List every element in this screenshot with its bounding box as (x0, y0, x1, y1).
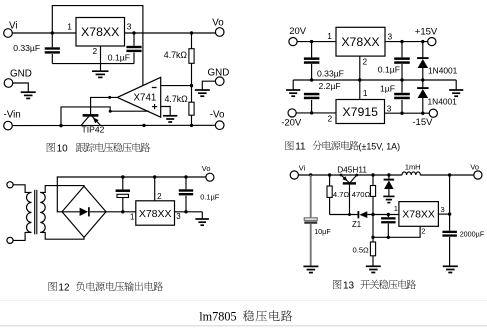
junction rail/pin2 (358, 78, 361, 81)
junction pin3/C5 (400, 40, 403, 43)
terminal Vo fig12 (206, 173, 214, 181)
caption fig13 (333, 280, 416, 292)
svg-text:0.1µF: 0.1µF (200, 192, 220, 201)
wire U1 pin3 out (125, 32, 216, 34)
wire noninverting step from -Vin (61, 107, 149, 126)
resistor R3 4.7ohm (327, 186, 332, 197)
capacitor C3 0.33uF (304, 59, 320, 63)
svg-text:D45H11: D45H11 (337, 164, 367, 174)
diode D2 1N4001 (417, 88, 429, 98)
wire op-amp minus input (161, 85, 192, 87)
svg-text:2: 2 (363, 57, 368, 67)
svg-text:1µF: 1µF (380, 84, 395, 94)
junction +15V/D1 (421, 40, 424, 43)
junction on op-amp output (108, 96, 111, 99)
wire U5 pin2 up to rail (154, 177, 156, 201)
svg-text:Vi: Vi (299, 163, 306, 172)
svg-text:3: 3 (388, 32, 393, 42)
wire U6 pin3 out (438, 213, 449, 215)
inductor L1 1mH (402, 172, 420, 175)
wire C1 top (51, 33, 53, 47)
junction C10/pin1 row (387, 213, 390, 216)
wire U4 pin1 up (359, 80, 361, 100)
svg-text:1: 1 (363, 88, 368, 98)
junction Q2 left leg (340, 174, 343, 177)
capacitor C5 0.1uF (394, 59, 410, 63)
regulator U3 X78XX (336, 27, 385, 56)
ground at GND right terminal (195, 90, 210, 96)
wire C8 top lead (185, 177, 187, 189)
junction 20V/C3 (310, 40, 313, 43)
svg-text:1: 1 (130, 212, 135, 221)
wire bridge right to U5 pin1 (106, 211, 136, 213)
wire U4 pin3 out (385, 112, 430, 114)
svg-text:X78XX: X78XX (402, 209, 435, 221)
ground right fig11 (449, 90, 463, 96)
svg-text:Vo: Vo (212, 18, 224, 29)
wire C6 top (401, 80, 403, 93)
wire U5 pin3 out (175, 211, 203, 213)
junction Q2 right leg (355, 174, 358, 177)
svg-text:lm7805: lm7805 (199, 309, 236, 323)
svg-text:3: 3 (176, 212, 181, 221)
svg-text:1: 1 (394, 204, 398, 213)
svg-text:Vo: Vo (202, 164, 211, 173)
svg-text:GND: GND (10, 68, 32, 79)
junction Vi/C1/feedback (51, 31, 54, 34)
svg-text:X7915: X7915 (342, 105, 378, 119)
wire D1 top lead (422, 42, 424, 58)
junction C7/pin1 line (121, 210, 124, 213)
wire C3 top (311, 42, 313, 58)
terminal Vi fig13 (290, 171, 298, 179)
regulator U1 X78XX (76, 18, 125, 47)
junction C6/-15V line (400, 112, 403, 115)
capacitor C10 470uF (381, 218, 396, 222)
capacitor C1 0.33uF (45, 49, 60, 53)
junction -Vin mid (142, 124, 145, 127)
wire AC top to primary (13, 185, 31, 193)
junction bottom rail left (371, 236, 374, 239)
zener Z1 (357, 211, 359, 218)
svg-text:10: 10 (57, 143, 69, 154)
op-amp U2 X741 (117, 77, 160, 117)
wire D1 bottom lead (422, 68, 424, 80)
terminal Vo fig10 (215, 28, 224, 37)
ground under C9 (303, 266, 318, 272)
wire 0.5ohm bottom lead (372, 256, 374, 266)
svg-text:-Vin: -Vin (4, 110, 21, 121)
junction rail/C5-C6 (400, 78, 403, 81)
separator line above bottom caption (0, 300, 487, 302)
wire -Vin line (12, 124, 215, 126)
terminal GND left (4, 79, 13, 88)
terminal -Vin (4, 121, 13, 130)
wire -20V to U4 pin2 (296, 112, 336, 114)
svg-text:Z1: Z1 (352, 220, 361, 229)
wire U6 pin2 down to rail (373, 226, 420, 237)
junction rail/C3-C4 (310, 78, 313, 81)
wire GND right to ground (202, 81, 215, 89)
wire R4 bottom lead (372, 196, 374, 214)
wire D2 top lead (422, 80, 424, 88)
resistor R1 4.7k (189, 49, 194, 64)
wire D3 bottom lead (388, 189, 390, 196)
wire C11 top lead (449, 214, 451, 231)
diode D1 1N4001 (417, 58, 429, 68)
svg-text:TIP42: TIP42 (82, 125, 105, 135)
wire U1 pin2 to ground (100, 46, 102, 71)
junction -Vin/step (59, 124, 62, 127)
svg-text:1N4001: 1N4001 (428, 96, 458, 106)
diode D3 catch (384, 180, 395, 189)
junction pin3/riser (448, 212, 451, 215)
capacitor C4 2.2uF (304, 94, 320, 98)
svg-text:3: 3 (441, 205, 445, 214)
wire R2 top lead (191, 86, 193, 103)
resistor R4 470ohm (370, 186, 375, 197)
wire U3 pin2 down (359, 56, 361, 80)
wire secondary bottom to bridge bottom (40, 232, 84, 239)
svg-text:2: 2 (421, 226, 425, 235)
svg-text:1: 1 (327, 31, 332, 41)
capacitor C7 filter electrolytic (116, 189, 130, 192)
svg-text:X78XX: X78XX (341, 35, 379, 49)
wire C8 bottom lead (185, 196, 187, 212)
wire C3 bottom to mid rail (311, 64, 313, 80)
capacitor C9 10uF electrolytic gray (304, 175, 317, 266)
wire R1 bottom to inverting node (191, 63, 193, 85)
svg-text:-Vo: -Vo (210, 109, 225, 120)
svg-text:0.33µF: 0.33µF (13, 43, 40, 53)
wire C6 bottom (401, 100, 403, 113)
svg-text:2: 2 (93, 46, 98, 56)
wire pin3 riser (449, 175, 451, 214)
wire R4 top lead (372, 175, 374, 186)
terminal AC bottom (7, 237, 13, 243)
capacitor C8 0.1uF (179, 191, 193, 195)
svg-text:-20V: -20V (281, 117, 302, 128)
wire Z1 row down (372, 215, 374, 238)
junction rail/D1-D2 (421, 78, 424, 81)
terminal -Vo (215, 121, 224, 130)
svg-text:3: 3 (127, 22, 132, 32)
terminal -20V (288, 109, 296, 117)
svg-text:X741: X741 (134, 93, 157, 104)
wire op-amp output to Q1 base (91, 97, 118, 114)
wire R3 top lead (329, 175, 331, 186)
svg-text:0.1µF: 0.1µF (108, 52, 130, 62)
junction step corner (109, 110, 112, 113)
svg-text:X78XX: X78XX (81, 25, 119, 39)
wire 0.5ohm top lead (372, 237, 374, 242)
transformer T1 secondary winding (40, 192, 45, 232)
ground under C11 (443, 266, 458, 272)
bottom caption lm7805 (199, 309, 292, 323)
resistor R2 4.7k (189, 102, 194, 115)
terminal -15V (429, 109, 437, 117)
caption fig11 (285, 141, 400, 153)
wire base row left (330, 214, 358, 216)
svg-text:+15V: +15V (415, 27, 438, 38)
caption fig10 (47, 143, 150, 155)
terminal Vo fig13 (474, 171, 482, 179)
wire Z1 to pin1 (367, 214, 399, 216)
capacitor C2 0.1uF (126, 47, 141, 51)
terminal +15V (428, 38, 436, 46)
wire R3 bottom lead (329, 197, 331, 214)
transistor Q2 D45H11 (341, 175, 357, 215)
wire R2 bottom to -Vo line (191, 115, 193, 125)
ground under D3 (383, 196, 394, 202)
svg-text:1: 1 (67, 22, 72, 32)
ground at op-amp plus (163, 116, 177, 122)
wire C1 bottom to ground rail (51, 54, 53, 64)
wire 20V to U3 pin1 (297, 41, 336, 43)
junction rail/C8 (184, 175, 187, 178)
junction Q2 collector/R4 (371, 173, 374, 176)
svg-text:11: 11 (295, 141, 306, 152)
junction base/row (348, 213, 351, 216)
wire C4 bottom (311, 100, 313, 113)
wire D2 bottom lead (422, 98, 424, 113)
junction top/pin3 riser (448, 173, 451, 176)
resistor R5 0.5ohm (370, 242, 375, 256)
svg-text:2000µF: 2000µF (460, 229, 485, 238)
transistor Q1 TIP42 (81, 115, 101, 125)
svg-text:Vo: Vo (470, 163, 479, 172)
svg-text:12: 12 (58, 282, 70, 293)
svg-text:(±15V, 1A): (±15V, 1A) (359, 141, 401, 151)
wire secondary top to bridge top (40, 186, 84, 193)
junction R4/Z1 row (371, 213, 374, 216)
wire C10 bottom lead (387, 224, 389, 238)
caption fig12 (49, 282, 163, 294)
ground left fig11 (286, 90, 300, 96)
wire feedback top rail (52, 6, 143, 86)
junction C4/-20V line (310, 111, 313, 114)
svg-text:2: 2 (157, 192, 162, 201)
wire Vi to U1 pin1 (12, 32, 76, 34)
terminal AC top (7, 182, 13, 188)
junction catch diode top (387, 173, 390, 176)
junction rail/C7 (121, 175, 124, 178)
capacitor C6 1uF (394, 94, 410, 98)
svg-text:470Ω: 470Ω (352, 190, 371, 199)
transformer T1 primary winding (27, 192, 32, 232)
svg-text:0.1µF: 0.1µF (378, 65, 400, 75)
svg-text:1N4001: 1N4001 (428, 65, 458, 75)
transformer T1 core (35, 190, 37, 235)
wire U3 pin3 out (385, 41, 428, 43)
junction C10/bottom rail (387, 236, 390, 239)
junction R1/R2/op-amp minus (190, 84, 193, 87)
svg-text:0.33µF: 0.33µF (317, 68, 344, 78)
svg-text:2: 2 (328, 114, 333, 124)
separator line bottom (0, 325, 487, 327)
wire AC bottom to primary (13, 232, 31, 240)
svg-text:20V: 20V (289, 26, 307, 37)
junction Vi/R3/Q2 emitter (328, 173, 331, 176)
bridge rectifier BR1 (62, 186, 106, 237)
regulator U4 X7915 (336, 100, 385, 124)
wire D3 top lead (388, 175, 390, 180)
wire top line after inductor (420, 174, 474, 176)
wire R1 top lead (191, 33, 193, 49)
junction -Vin/R2 (190, 124, 193, 127)
ground at GND left terminal (21, 92, 36, 98)
capacitor C11 2000uF (442, 232, 457, 236)
wire rail left drop (292, 80, 294, 90)
svg-text:1mH: 1mH (405, 162, 421, 171)
wire pin3 to ground (201, 212, 203, 219)
wire C7 bottom lead (122, 198, 124, 212)
junction Vo/R1 (190, 31, 193, 34)
regulator U6 X78XX (399, 202, 439, 227)
junction rail/pin2 U5 (153, 175, 156, 178)
svg-text:4.7kΩ: 4.7kΩ (164, 50, 188, 60)
terminal 20V (289, 38, 297, 46)
junction D2/-15V line (421, 112, 424, 115)
wire C11 bottom lead (449, 237, 451, 266)
wire C5 bottom (401, 64, 403, 80)
wire C2 top (133, 33, 135, 46)
wire ground rail fig10 (52, 63, 134, 65)
svg-text:4.7kΩ: 4.7kΩ (165, 94, 189, 104)
svg-text:-15V: -15V (412, 117, 433, 128)
wire mid ground rail (293, 79, 456, 81)
junction pin3/C8 (184, 210, 187, 213)
wire bridge left to top rail (57, 177, 206, 212)
wire C10 top lead (387, 215, 389, 218)
svg-text:X78XX: X78XX (139, 208, 172, 220)
svg-text:3: 3 (387, 103, 392, 113)
wire rail right drop (455, 80, 457, 90)
regulator U5 X78XX (136, 201, 175, 225)
wire GND left to ground (13, 83, 28, 92)
junction pin3/C2 (132, 31, 135, 34)
svg-text:4.7Ω: 4.7Ω (333, 190, 350, 199)
ground fig12 output (195, 219, 209, 225)
ground under U1 pin2 (92, 71, 109, 77)
ground under R5 (366, 266, 381, 272)
svg-text:0.5Ω: 0.5Ω (353, 246, 370, 255)
terminal GND right (215, 77, 224, 86)
svg-text:10µF: 10µF (314, 227, 331, 236)
svg-text:2.2µF: 2.2µF (319, 81, 341, 91)
svg-text:13: 13 (343, 280, 355, 291)
junction Vi/C9 (309, 173, 312, 176)
wire op-amp plus to ground (161, 107, 171, 116)
wire Vi top line (298, 174, 402, 176)
wire C5 top (401, 42, 403, 58)
terminal Vi (4, 29, 13, 38)
wire C7 top lead (122, 177, 124, 189)
wire C2 bottom (133, 53, 135, 64)
